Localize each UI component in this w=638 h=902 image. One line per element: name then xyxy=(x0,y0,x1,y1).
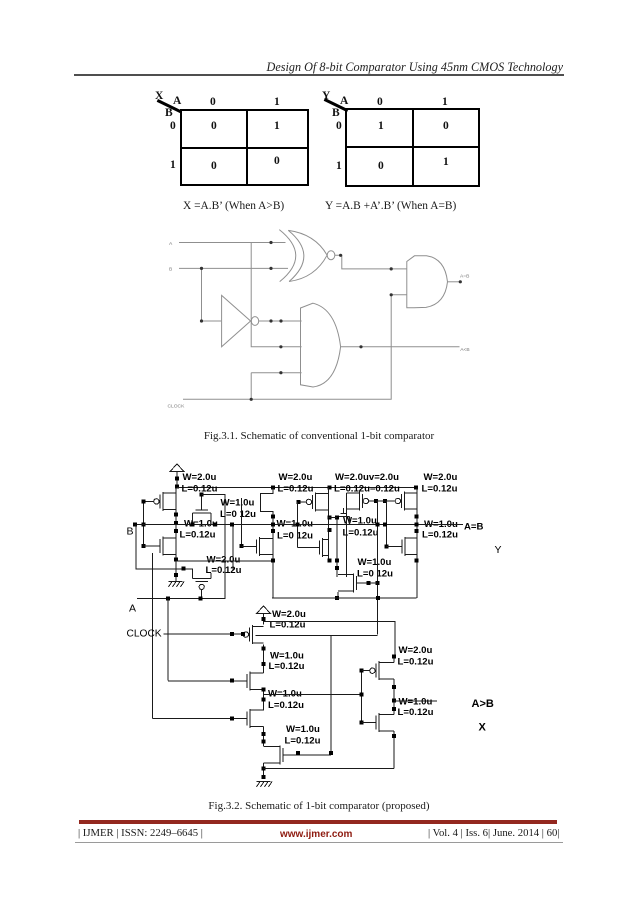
svg-text:L=0.12u: L=0.12u xyxy=(398,656,434,667)
junction col2 d xyxy=(271,558,275,562)
junction M7 gate link xyxy=(383,499,387,503)
junction A wire b xyxy=(199,596,203,600)
svg-text:L=0.12u: L=0.12u xyxy=(180,530,216,541)
junction col4 c xyxy=(415,529,419,533)
svg-text:A: A xyxy=(129,603,136,615)
junction OR low input xyxy=(279,371,282,374)
junction M15 gate wire xyxy=(366,581,370,585)
junction xnor out xyxy=(339,254,342,257)
junction OR mid input xyxy=(279,345,282,348)
kmap X cell 10 xyxy=(211,161,217,173)
svg-text:W=1 .0u: W=1 .0u xyxy=(277,519,314,530)
footer thin rule xyxy=(75,842,563,843)
wire gate bus block1 xyxy=(143,501,145,546)
junction AND low input xyxy=(390,293,393,296)
junction trunk B row xyxy=(375,523,379,527)
inverter U3 bubble xyxy=(251,317,258,326)
kmap Y label B xyxy=(332,108,340,120)
transistor M6 (nmos A) xyxy=(168,672,264,691)
junction on A<B wire xyxy=(359,345,362,348)
wire CLOCK run to AND gate xyxy=(183,295,407,400)
junction col1 d xyxy=(174,557,178,561)
junction col6 m3 xyxy=(392,707,396,711)
xnor U1 top edge xyxy=(288,230,327,255)
junction col2 b xyxy=(271,523,275,527)
wire input A row up to M2 gate xyxy=(137,495,225,599)
junction gate bus2L xyxy=(239,544,243,548)
wire left bus clock-NMOS gate xyxy=(151,553,153,718)
junction M16 gate end xyxy=(329,751,333,755)
footer left text xyxy=(78,827,203,839)
transistor M17 (pmos out) xyxy=(361,661,394,680)
wire col5 d xyxy=(263,763,265,778)
wire block1 out to col2 xyxy=(176,560,273,562)
xnor U1 bottom edge xyxy=(289,255,327,281)
svg-text:W=1.0u: W=1.0u xyxy=(184,519,218,530)
transistor M18 (nmos out) xyxy=(361,713,394,732)
junction col5 a2 xyxy=(262,662,266,666)
footer right text xyxy=(428,827,559,839)
svg-text:L=0.12u: L=0.12u xyxy=(278,484,314,495)
junction col3 a xyxy=(328,515,332,519)
wire VDD rail xyxy=(177,486,416,488)
kmap X cell 11 xyxy=(274,156,280,168)
transistor M11b (nmos) xyxy=(297,538,328,557)
wire block2 gate bus right xyxy=(296,502,298,548)
svg-text:A=B: A=B xyxy=(464,522,484,533)
junction rail col2 xyxy=(271,485,275,489)
junction col1 a xyxy=(174,513,178,517)
junction rail trunk cross xyxy=(376,596,380,600)
kmap Y row header 1 xyxy=(336,161,342,173)
junction on B wire xyxy=(269,267,272,270)
junction marker B row xyxy=(230,523,234,527)
xnor U1 bubble xyxy=(327,251,335,260)
wire ground rail right xyxy=(264,768,394,770)
power symbol VDD1 (VDD) xyxy=(170,464,184,472)
wire inverter output xyxy=(259,320,302,322)
kmap Y diagonal xyxy=(324,98,348,112)
equation X xyxy=(183,200,284,212)
junction rail col4 xyxy=(414,485,418,489)
footer center www.ijmer.com xyxy=(280,829,352,840)
transistor M12b (mini pass) xyxy=(339,508,350,525)
kmap Y vertical divider xyxy=(412,108,415,187)
wire gate link M5-M7 xyxy=(376,500,394,502)
transistor M3 (pmos) xyxy=(298,492,328,511)
kmap X outer box xyxy=(180,109,309,186)
wire VDD link to output inverter xyxy=(264,621,395,656)
svg-text:W=1.0u: W=1.0u xyxy=(221,498,255,509)
transistor M11 (nmos) xyxy=(241,537,273,556)
svg-text:W=1.0u: W=1.0u xyxy=(399,697,433,708)
transistor M9 (pmos) xyxy=(385,492,417,511)
junction inv out 2 xyxy=(279,319,282,322)
wire block2 gate bus left xyxy=(240,498,242,547)
junction M3 gate xyxy=(296,500,300,504)
junction col2 a xyxy=(271,514,275,518)
wire CLOCK trunk vertical xyxy=(376,501,378,635)
junction col6 m1 xyxy=(392,685,396,689)
junction B row start xyxy=(133,523,137,527)
junction col4 a xyxy=(415,515,419,519)
kmap Y col header 0 xyxy=(377,97,383,109)
transistor M1 (pmos) xyxy=(144,492,176,511)
junction col3 link xyxy=(328,515,332,519)
junction col2 c xyxy=(271,529,275,533)
svg-text:W=2.0u: W=2.0u xyxy=(183,472,217,483)
wire clock branch to OR input xyxy=(251,372,301,374)
svg-text:L=0.12u: L=0.12u xyxy=(269,661,305,672)
wire output inverter gate bus xyxy=(360,671,362,723)
junction col1 e xyxy=(174,573,178,577)
svg-text:L=0.12u: L=0.12u xyxy=(285,736,321,747)
svg-text:W=2.0uv=2.0u: W=2.0uv=2.0u xyxy=(335,472,399,483)
wire col2 vertical with jog xyxy=(260,487,273,598)
wire col3b vertical xyxy=(336,517,338,577)
svg-text:L=0.12u–0.12u: L=0.12u–0.12u xyxy=(334,484,400,495)
wire marker stub B row xyxy=(232,525,234,570)
transistor M8 (nmos) xyxy=(152,709,263,728)
junction col6 top xyxy=(392,654,396,658)
junction col4 d xyxy=(415,558,419,562)
header rule xyxy=(74,74,564,76)
wire gate bus block4 xyxy=(385,501,387,547)
kmap Y row header 0 xyxy=(336,121,342,133)
kmap X row header 0 xyxy=(170,121,176,133)
svg-text:L=0.12u: L=0.12u xyxy=(422,529,458,540)
junction bus4 gate xyxy=(384,544,388,548)
kmap X label A xyxy=(173,96,181,108)
junction AND top input xyxy=(390,267,393,270)
ground symbol GND2 xyxy=(257,782,273,788)
junction B branch xyxy=(200,267,203,270)
wire col6 bottom xyxy=(393,731,395,769)
wire col5 a xyxy=(263,645,265,673)
wire mid vertical to M16 gate xyxy=(330,635,332,753)
junction trunk gate M15 xyxy=(375,581,379,585)
junction col3 c xyxy=(328,558,332,562)
svg-text:L=0 12u: L=0 12u xyxy=(220,509,256,520)
junction M2 arm right xyxy=(213,523,217,527)
transistor M16 (nmos bottom) xyxy=(264,745,331,764)
kmap Y cell 10 xyxy=(378,161,384,173)
caption fig 3.2 xyxy=(0,800,638,812)
wire internal rail right xyxy=(272,597,417,599)
junction clock bus cross xyxy=(230,632,234,636)
transistor M5 (pmos) xyxy=(347,492,376,511)
wire B to inverter xyxy=(202,268,222,321)
kmap Y cell 01 xyxy=(443,121,449,133)
kmap X cell 01 xyxy=(274,121,280,133)
junction col5 d2 xyxy=(262,775,266,779)
and U2 body xyxy=(407,256,448,308)
svg-text:CLOCK: CLOCK xyxy=(127,629,162,640)
kmap X col header 1 xyxy=(274,97,280,109)
kmap Y horizontal divider xyxy=(345,146,480,149)
xnor U1 input arc xyxy=(279,230,295,282)
svg-text:L=0 12u: L=0 12u xyxy=(357,569,393,580)
junction VDD1 stem b xyxy=(175,484,179,488)
junction rail col3 xyxy=(328,485,332,489)
wire col6 top xyxy=(393,656,395,662)
kmap X vertical divider xyxy=(246,109,249,186)
svg-text:L=0.12u: L=0.12u xyxy=(182,484,218,495)
junction A=B out xyxy=(459,280,462,283)
wire A=B output xyxy=(448,281,460,283)
junction on A wire xyxy=(269,241,272,244)
junction col1 b xyxy=(174,521,178,525)
svg-text:W=2.0u: W=2.0u xyxy=(399,645,433,656)
wire col5 b xyxy=(263,689,265,710)
junction col5 c1 xyxy=(262,732,266,736)
wire A down xyxy=(167,598,169,680)
wire clock vertical branch xyxy=(250,373,252,400)
wire B branch down to M14 xyxy=(136,525,192,579)
xnor U1 body back arc xyxy=(288,230,304,281)
junction bus gate A xyxy=(230,678,234,682)
kmap Y col header 1 xyxy=(442,97,448,109)
svg-text:L=0.12u: L=0.12u xyxy=(398,707,434,718)
junction gate bus top xyxy=(142,499,146,503)
kmap X col header 0 xyxy=(210,97,216,109)
kmap Y cell 00 xyxy=(378,121,384,133)
junction col4 b xyxy=(415,523,419,527)
wire input A xyxy=(179,242,286,244)
svg-text:A>B: A>B xyxy=(472,698,494,710)
svg-text:L=0.12u: L=0.12u xyxy=(268,700,304,711)
junction M2 gate top xyxy=(200,493,204,497)
svg-text:Y: Y xyxy=(495,544,502,556)
svg-text:W=2.0u: W=2.0u xyxy=(279,472,313,483)
footer red bar xyxy=(79,820,557,824)
kmap X diagonal xyxy=(157,99,181,113)
junction bus gate 2 xyxy=(230,716,234,720)
junction col5 b2 xyxy=(262,698,266,702)
kmap Y outer box xyxy=(345,108,480,187)
junction col6 b1 xyxy=(392,734,396,738)
kmap Y cell 11 xyxy=(443,157,449,169)
kmap Y label Y xyxy=(322,91,330,103)
wire VDD2 stem xyxy=(263,614,265,625)
junction M16 gate wire xyxy=(296,751,300,755)
wire col6 mid xyxy=(393,679,395,715)
wire CLOCK in xyxy=(163,633,243,635)
transistor M13 (nmos) xyxy=(386,537,417,556)
junction M5 gate xyxy=(374,499,378,503)
junction col5 c2 xyxy=(262,739,266,743)
junction col5 d1 xyxy=(262,767,266,771)
svg-text:B: B xyxy=(127,526,134,538)
wire input B xyxy=(179,267,288,269)
or U4 body xyxy=(301,303,341,387)
power symbol VDD2 (VDD) xyxy=(257,606,271,614)
svg-text:X: X xyxy=(479,722,487,734)
junction col3 b xyxy=(328,528,332,532)
junction M15 step rail xyxy=(335,596,339,600)
junction inverter input xyxy=(200,319,203,322)
junction col6 m2 xyxy=(392,698,396,702)
kmap X cell 00 xyxy=(211,121,217,133)
inverter U3 triangle xyxy=(222,295,251,346)
junction col3b b xyxy=(335,566,339,570)
junction A wire a xyxy=(166,596,170,600)
junction M2 arm left xyxy=(190,523,194,527)
wire selection node to inverter xyxy=(264,693,362,695)
svg-text:W=2.0u: W=2.0u xyxy=(424,472,458,483)
svg-text:W=1.0u: W=1.0u xyxy=(270,651,304,662)
junction col5 b1 xyxy=(262,688,266,692)
junction inv out 1 xyxy=(269,319,272,322)
junction out inv gate b xyxy=(359,721,363,725)
caption fig 3.1 xyxy=(0,430,638,442)
wire col4 vertical xyxy=(416,487,418,598)
wire col3 link xyxy=(329,516,338,518)
junction gate bus bottom xyxy=(142,544,146,548)
kmap X row header 1 xyxy=(170,160,176,172)
wire B row long xyxy=(133,524,463,526)
svg-text:L=0.12u: L=0.12u xyxy=(343,528,379,539)
transistor M15 (nmos clocked) xyxy=(338,573,377,592)
junction col3b a xyxy=(335,558,339,562)
junction col3b top xyxy=(335,515,339,519)
wire col5 c xyxy=(263,727,265,747)
junction out inv gate a xyxy=(359,669,363,673)
transistor M10 (nmos) xyxy=(144,537,176,556)
transistor M14 (pass pmos, rotated) xyxy=(192,573,211,599)
junction col1 c xyxy=(174,529,178,533)
wire VDD1 stem xyxy=(176,472,178,488)
wire A down to OR middle input xyxy=(251,243,301,347)
wire clock net right xyxy=(256,634,378,636)
junction bus4 B row xyxy=(383,523,387,527)
junction VDD2 stem xyxy=(262,617,266,621)
header title xyxy=(0,60,563,75)
wire col3 vertical xyxy=(328,487,330,560)
kmap X label B xyxy=(165,108,173,120)
junction clock gate xyxy=(241,632,245,636)
wire xnor out to AND xyxy=(335,255,407,269)
svg-text:W=1.0u: W=1.0u xyxy=(358,557,392,568)
wire A>B output xyxy=(394,700,437,702)
wire col1 vertical xyxy=(175,487,177,581)
svg-text:W=1.0u: W=1.0u xyxy=(286,724,320,735)
junction marker B drop wire xyxy=(182,567,186,571)
wire M15 arm step down xyxy=(337,592,339,598)
junction clock xyxy=(250,398,253,401)
transistor M2 (pass, rotated) xyxy=(192,495,211,525)
kmap X horizontal divider xyxy=(180,147,309,150)
equation Y xyxy=(325,200,456,212)
ground symbol GND1 xyxy=(169,582,185,588)
transistor M4 (pmos clock) xyxy=(243,625,263,644)
junction gate bus B xyxy=(142,523,146,527)
junction col5 a1 xyxy=(262,647,266,651)
wire A<B output xyxy=(341,346,460,348)
svg-text:W=2.0u: W=2.0u xyxy=(207,555,241,566)
junction gate bus2 B row xyxy=(295,523,299,527)
svg-text:L=0 12u: L=0 12u xyxy=(277,531,313,542)
junction VDD1 stem a xyxy=(175,477,179,481)
wire col3L vertical xyxy=(346,493,348,577)
kmap Y label A xyxy=(340,96,348,108)
kmap X label X xyxy=(155,91,163,103)
junction out inv gate mid xyxy=(359,692,363,696)
svg-text:L=0.12u: L=0.12u xyxy=(422,484,458,495)
